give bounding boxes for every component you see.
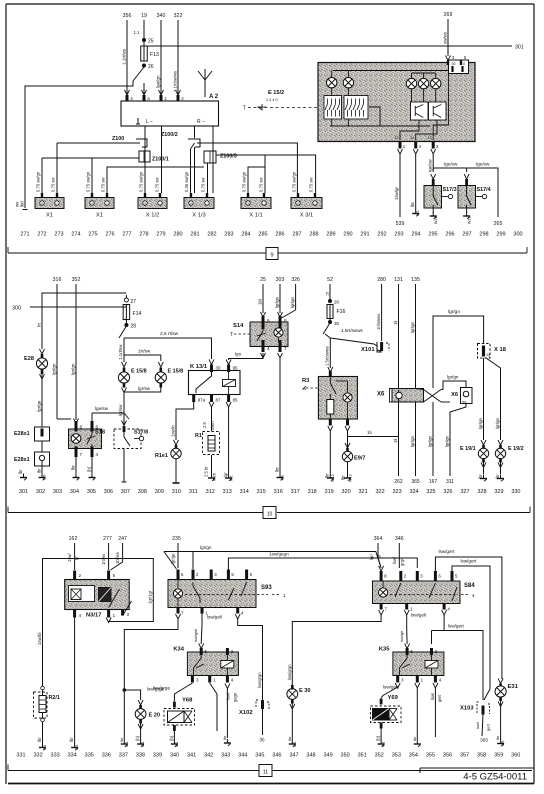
svg-text:R1: R1 — [195, 433, 202, 439]
svg-text:lgr/gn: lgr/gn — [71, 363, 76, 375]
svg-text:R3: R3 — [302, 378, 310, 384]
svg-text:360: 360 — [511, 753, 520, 759]
wire to K35 pin 2 — [431, 631, 433, 645]
svg-text:lsw/grgn: lsw/grgn — [287, 664, 292, 680]
svg-text:316: 316 — [53, 277, 62, 283]
ground W26 — [208, 474, 215, 481]
speaker wire to Z100/2 — [194, 126, 196, 138]
connector arrow S17/3 — [431, 174, 436, 179]
svg-text:gert: gert — [437, 694, 442, 702]
wire lgr from pin 85 — [228, 407, 230, 474]
svg-text:0.35 sw/gn: 0.35 sw/gn — [184, 171, 189, 192]
S18 pin 7 — [75, 447, 78, 458]
svg-text:287: 287 — [292, 232, 301, 238]
wire K35 pin4 down — [434, 688, 436, 737]
svg-text:+: + — [190, 202, 192, 206]
svg-text:301: 301 — [515, 45, 524, 51]
svg-text:298: 298 — [479, 232, 488, 238]
control unit N3/17 box — [65, 580, 130, 610]
svg-text:0.75 sw/gn: 0.75 sw/gn — [86, 171, 91, 192]
svg-text:tge/sw: tge/sw — [476, 162, 490, 167]
svg-text:318: 318 — [308, 489, 317, 495]
headlamp switch S93 — [168, 580, 256, 608]
svg-text:365: 365 — [480, 738, 488, 744]
svg-text:324: 324 — [409, 489, 418, 495]
svg-text:539: 539 — [396, 221, 405, 227]
R3 lamp — [343, 393, 352, 402]
K13/1 pin 30 — [209, 360, 214, 365]
fuse F14 — [123, 305, 129, 320]
svg-text:269: 269 — [444, 12, 453, 18]
svg-text:336: 336 — [102, 753, 111, 759]
wire lge/sw from S18 pin 6 — [92, 412, 124, 414]
svg-text:358: 358 — [477, 753, 486, 759]
svg-text:lgr/sw: lgr/sw — [138, 386, 151, 391]
wire lsw/gegn from S93 pin 5 to S84 pin 3 — [228, 558, 417, 570]
svg-text:310: 310 — [172, 489, 181, 495]
svg-text:1sw/gegn: 1sw/gegn — [269, 552, 289, 557]
svg-text:4: 4 — [96, 452, 99, 457]
cluster lower bus — [330, 125, 430, 127]
svg-text:X6: X6 — [377, 392, 385, 398]
svg-text:lsw/gert: lsw/gert — [383, 685, 400, 690]
svg-text:K35: K35 — [379, 647, 390, 653]
K13/1 pin 87 — [210, 395, 213, 403]
svg-text:R −: R − — [197, 119, 205, 125]
svg-text:14: 14 — [410, 136, 414, 140]
section divider 10 — [8, 512, 263, 514]
S18 pin 8 — [75, 421, 78, 432]
svg-text:X 1/1: X 1/1 — [249, 213, 263, 219]
svg-text:341: 341 — [187, 753, 196, 759]
svg-text:1: 1 — [283, 593, 286, 598]
svg-text:E 30: E 30 — [299, 688, 311, 694]
switch contact below F13 — [133, 67, 144, 81]
svg-text:167: 167 — [429, 479, 438, 485]
K35 pin 2 — [430, 648, 433, 655]
cluster inner top-right connector — [449, 60, 469, 74]
svg-text:1.1: 1.1 — [134, 30, 140, 35]
svg-text:Y69: Y69 — [388, 695, 399, 701]
svg-text:311: 311 — [189, 489, 198, 495]
wire lsw/gert S84 pin6 loop — [435, 557, 502, 679]
svg-text:274: 274 — [71, 232, 80, 238]
wire 301 to right — [144, 45, 512, 47]
svg-text:lsw/geli: lsw/geli — [207, 615, 222, 620]
svg-text:+: + — [41, 202, 43, 206]
wire 539 from cluster pin 1 — [399, 154, 401, 217]
S18 internal lamp — [71, 434, 81, 444]
svg-text:lgr/gn: lgr/gn — [52, 363, 57, 375]
svg-text:2.5: 2.5 — [202, 422, 207, 428]
wire S84 pin4 to K35 pin2 and X103 — [432, 615, 445, 631]
svg-text:280: 280 — [377, 277, 386, 283]
svg-text:lbr: lbr — [71, 465, 76, 470]
svg-text:277: 277 — [122, 232, 131, 238]
lamp E19/1 — [481, 440, 486, 445]
svg-text:296: 296 — [445, 232, 454, 238]
K13/1 contact — [196, 372, 212, 393]
svg-text:275: 275 — [88, 232, 97, 238]
svg-text:E 15/2: E 15/2 — [268, 90, 284, 96]
svg-text:278: 278 — [139, 232, 148, 238]
svg-text:0.75 sw/gn: 0.75 sw/gn — [139, 171, 144, 192]
svg-text:S14: S14 — [233, 323, 244, 329]
svg-text:0.75 sw/gn: 0.75 sw/gn — [292, 171, 297, 192]
wire lbr/ws from node 26 to terminal 271 — [25, 81, 133, 208]
svg-text:F13: F13 — [150, 52, 159, 58]
svg-text:347: 347 — [289, 753, 298, 759]
K13/1 coil — [223, 380, 236, 387]
svg-text:lgr/gn: lgr/gn — [410, 435, 415, 447]
node 25 — [142, 38, 145, 41]
svg-text:300: 300 — [12, 306, 21, 312]
wire lsw/geli S93 pin1 to K34 pin 5 — [200, 612, 203, 644]
svg-text:lgr/gn: lgr/gn — [448, 309, 460, 315]
S18 internal contact — [91, 429, 93, 434]
wire K34 pin4 down — [226, 689, 228, 739]
S93 internals — [173, 589, 182, 598]
svg-text:lgr/: lgr/ — [369, 553, 374, 560]
svg-text:X101: X101 — [361, 347, 375, 353]
relay K34 box — [187, 652, 238, 676]
svg-text:lbr: lbr — [412, 736, 417, 741]
wire S84 pin1 lsw/geli — [406, 615, 408, 630]
wire lbr from cluster pin 4 — [415, 154, 417, 210]
svg-text:303: 303 — [276, 277, 285, 283]
connector arrow E15/8 feed — [122, 362, 127, 367]
switch contact below F15 — [323, 323, 330, 334]
svg-text:28: 28 — [131, 324, 137, 330]
branch to X1/1 right pin — [264, 155, 266, 193]
svg-text:W1: W1 — [125, 742, 129, 747]
svg-text:340: 340 — [157, 13, 166, 19]
svg-text:E31: E31 — [508, 684, 519, 690]
svg-text:355: 355 — [426, 753, 435, 759]
connector arrow S17/4 — [466, 168, 468, 172]
svg-text:328: 328 — [477, 489, 486, 495]
svg-text:342: 342 — [204, 753, 213, 759]
svg-text:306: 306 — [104, 489, 113, 495]
svg-text:S18: S18 — [95, 430, 105, 436]
tge/sw distribution wire — [433, 168, 498, 217]
K13/1 pin 87a — [192, 395, 195, 403]
svg-text:357: 357 — [460, 753, 469, 759]
svg-text:135: 135 — [411, 277, 420, 283]
svg-text:lsw/geli: lsw/geli — [411, 613, 426, 618]
svg-text:329: 329 — [494, 489, 503, 495]
svg-text:W12: W12 — [331, 474, 335, 482]
border frame — [6, 3, 534, 5]
svg-text:lgr/gn: lgr/gn — [428, 435, 433, 447]
svg-text:282: 282 — [207, 232, 216, 238]
svg-text:lsw/ge: lsw/ge — [399, 630, 404, 642]
svg-text:346: 346 — [395, 536, 404, 542]
svg-text:0.75 sw: 0.75 sw — [259, 177, 264, 192]
svg-text:lge/sw: lge/sw — [95, 406, 109, 411]
N3/17 pin 5 — [107, 571, 110, 580]
svg-text:lbr: lbr — [222, 735, 227, 740]
svg-text:330: 330 — [511, 489, 520, 495]
svg-text:13: 13 — [395, 136, 399, 140]
svg-text:lbr: lbr — [69, 737, 74, 742]
svg-text:299: 299 — [496, 232, 505, 238]
svg-text:276: 276 — [105, 232, 114, 238]
svg-text:N3/17: N3/17 — [86, 613, 101, 619]
S14 pin 7 — [279, 340, 282, 352]
svg-text:131: 131 — [394, 277, 403, 283]
svg-text:364: 364 — [374, 536, 383, 542]
svg-text:293: 293 — [394, 232, 403, 238]
svg-text:S17/4: S17/4 — [477, 187, 491, 193]
wire K35 pin1 to ground 354 — [416, 688, 418, 740]
svg-text:E28: E28 — [24, 356, 34, 362]
svg-text:X1: X1 — [96, 213, 103, 219]
svg-text:52: 52 — [327, 277, 333, 283]
connector X1/3 — [184, 198, 214, 209]
svg-text:340: 340 — [170, 753, 179, 759]
svg-text:W2: W2 — [293, 742, 297, 747]
cluster lamp 5 — [435, 73, 437, 78]
svg-text:lgr: lgr — [223, 472, 228, 477]
svg-text:326: 326 — [443, 489, 452, 495]
S84 top pins — [380, 571, 383, 581]
svg-text:356: 356 — [123, 13, 132, 19]
svg-text:gegn: gegn — [233, 692, 238, 702]
svg-text:W1: W1 — [416, 210, 420, 216]
node 27 terminal ring — [124, 298, 128, 302]
cluster lamp 3 — [411, 73, 413, 78]
connector X3/1 — [291, 198, 322, 209]
wire continuation to ground 337 — [123, 690, 125, 740]
heater control R3 box — [318, 377, 357, 420]
svg-text:326: 326 — [291, 277, 300, 283]
svg-text:lgr/gn: lgr/gn — [200, 545, 212, 550]
svg-text:lgr/gn: lgr/gn — [447, 375, 459, 380]
svg-text:302: 302 — [36, 489, 45, 495]
svg-text:lsw/grge: lsw/grge — [153, 686, 171, 691]
lgr/gn link to X6 right — [443, 381, 466, 390]
svg-text:lgr/ge: lgr/ge — [37, 400, 42, 412]
K34 bottom pins — [191, 676, 194, 683]
svg-text:1 4 4 0: 1 4 4 0 — [266, 98, 278, 102]
svg-text:W12: W12 — [349, 474, 353, 482]
svg-text:E28x1: E28x1 — [14, 457, 30, 463]
svg-text:X 18: X 18 — [494, 347, 507, 353]
svg-text:+: + — [144, 202, 146, 206]
svg-text:Z100: Z100 — [112, 136, 124, 142]
svg-text:lbr: lbr — [18, 469, 23, 474]
node 26 — [142, 64, 145, 67]
svg-text:309: 309 — [155, 489, 164, 495]
svg-text:305: 305 — [87, 489, 96, 495]
svg-text:307: 307 — [121, 489, 130, 495]
svg-text:25: 25 — [260, 277, 266, 283]
wires X18 to lamps — [483, 358, 485, 440]
lamp E31 — [498, 679, 503, 684]
svg-text:lgr/gn: lgr/gn — [275, 296, 280, 308]
svg-text:30: 30 — [452, 62, 456, 66]
wire K34 pin1 stub down — [210, 683, 217, 731]
svg-text:4-5 GZ54-0011: 4-5 GZ54-0011 — [463, 772, 527, 783]
wire down to S17/8 — [123, 420, 125, 426]
svg-text:+: + — [297, 202, 299, 206]
K35 internals — [399, 655, 407, 675]
svg-text:Z100/2: Z100/2 — [161, 132, 178, 138]
svg-text:349: 349 — [323, 753, 332, 759]
wire to X101 — [325, 334, 381, 351]
wire lbr ground 319 — [329, 431, 331, 474]
svg-text:314: 314 — [240, 489, 249, 495]
cluster lamp 1 wire down — [331, 88, 333, 96]
svg-text:286: 286 — [275, 232, 284, 238]
fuse F13 — [141, 46, 148, 61]
cluster wiring to bottom pins — [400, 120, 419, 140]
wire lgr/gn from S93 to S84 pin 8 — [164, 552, 381, 569]
wire to X1 second left pin — [91, 158, 93, 193]
lamp E19/2 — [498, 440, 503, 445]
svg-text:lsw/geli: lsw/geli — [193, 629, 198, 642]
connector X18 — [478, 344, 491, 359]
svg-text:162: 162 — [69, 536, 78, 542]
svg-text:E 15/8: E 15/8 — [131, 369, 147, 375]
svg-text:lbr: lbr — [37, 737, 42, 742]
svg-text:321: 321 — [359, 489, 368, 495]
resistor R2/1 — [41, 686, 45, 690]
svg-text:X102: X102 — [239, 710, 253, 716]
svg-text:332: 332 — [33, 753, 42, 759]
wire lsw/ge to K35 pin5 from S84 pin1 — [406, 630, 408, 645]
svg-text:sw/ws: sw/ws — [443, 31, 448, 44]
branch wire 1rt/sw to right E15/8 — [124, 355, 161, 361]
S93 top pins — [177, 570, 180, 580]
svg-text:2,5 rt/sw: 2,5 rt/sw — [160, 331, 179, 337]
wire K35 pin3 to Y69 — [381, 687, 398, 698]
svg-text:lsw/gert: lsw/gert — [461, 559, 478, 564]
N3/17 pin 1 — [107, 610, 110, 618]
svg-text:0.75 sw: 0.75 sw — [51, 177, 56, 192]
svg-text:F16: F16 — [337, 309, 346, 315]
svg-text:tge/sw: tge/sw — [444, 162, 458, 167]
wire from S17/8 to 307 — [123, 449, 125, 483]
resistor R1 — [203, 432, 220, 455]
svg-text:301: 301 — [19, 489, 28, 495]
svg-text:W20: W20 — [434, 216, 438, 224]
svg-text:285: 285 — [258, 232, 267, 238]
cluster lamp 1 — [331, 71, 333, 78]
svg-text:bl: bl — [376, 555, 381, 558]
K35 pin 5 — [405, 644, 410, 649]
svg-text:327: 327 — [460, 489, 469, 495]
wire 1.1rt/sw down to E15/8 — [123, 338, 125, 362]
svg-text:Y68: Y68 — [182, 698, 193, 704]
svg-text:lsw/: lsw/ — [226, 692, 231, 700]
svg-text:W5: W5 — [501, 741, 505, 746]
svg-text:304: 304 — [70, 489, 79, 495]
svg-text:K 13/1: K 13/1 — [190, 364, 208, 370]
svg-text:333: 333 — [51, 753, 60, 759]
svg-text:0.75 sw/gn: 0.75 sw/gn — [242, 171, 247, 192]
node 30 — [329, 319, 331, 322]
wire S93 pin 7 to E20 — [124, 619, 178, 700]
connector X1/1 — [241, 198, 271, 209]
svg-text:lbr: lbr — [37, 468, 42, 473]
svg-text:S93: S93 — [261, 585, 272, 591]
svg-text:281: 281 — [190, 232, 199, 238]
svg-text:8: 8 — [80, 425, 83, 430]
wire from N3/17 pin 4 to ground 334 — [74, 618, 76, 745]
svg-text:lsw/gert: lsw/gert — [439, 549, 456, 554]
svg-text:297: 297 — [462, 232, 471, 238]
svg-text:303: 303 — [53, 489, 62, 495]
wire lbr from S14 pin 7 — [279, 358, 281, 474]
svg-text:R1e1: R1e1 — [155, 453, 168, 459]
svg-text:Z100/3: Z100/3 — [220, 154, 237, 160]
svg-text:1gr/1gr: 1gr/1gr — [148, 590, 153, 604]
svg-text:271: 271 — [20, 232, 29, 238]
S14 pin 4 — [262, 340, 265, 352]
svg-text:283: 283 — [224, 232, 233, 238]
svg-text:85: 85 — [233, 398, 238, 403]
svg-text:1sw/: 1sw/ — [67, 553, 72, 562]
svg-text:288: 288 — [309, 232, 318, 238]
N3/17 pin 2 — [73, 571, 76, 580]
svg-text:351: 351 — [358, 753, 367, 759]
svg-text:27: 27 — [131, 299, 137, 305]
svg-text:272: 272 — [37, 232, 46, 238]
svg-text:26: 26 — [148, 64, 154, 70]
svg-text:317: 317 — [291, 489, 300, 495]
svg-text:sw/rt: sw/rt — [210, 420, 215, 430]
wire to ground 305 — [91, 457, 93, 474]
relay K35 box — [393, 652, 444, 676]
svg-text:319: 319 — [325, 489, 334, 495]
svg-text:(5): (5) — [259, 737, 265, 742]
N3/17 pin 3 contact stub — [123, 601, 132, 616]
svg-text:E9/7: E9/7 — [354, 456, 366, 462]
svg-text:331: 331 — [16, 753, 25, 759]
svg-text:337: 337 — [119, 753, 128, 759]
S93 bottom pins — [177, 608, 180, 614]
svg-text:316: 316 — [274, 489, 283, 495]
radio unit R connector box — [121, 101, 219, 126]
svg-text:19: 19 — [141, 13, 147, 19]
speaker wire L- to X1/2 — [161, 126, 163, 193]
svg-text:1rt/ws: 1rt/ws — [101, 554, 106, 565]
lamp E15/8 left — [123, 368, 126, 373]
cluster lamp 2 — [347, 71, 349, 78]
svg-text:343: 343 — [221, 753, 230, 759]
wire K34 pin3 to Y68 — [174, 683, 192, 701]
wire crossing X — [415, 384, 417, 389]
svg-text:320: 320 — [342, 489, 351, 495]
switch S18 — [69, 429, 102, 449]
ground W20 — [430, 212, 437, 219]
svg-text:lsw/: lsw/ — [475, 721, 480, 729]
svg-text:lgn: lgn — [235, 352, 242, 357]
svg-text:308: 308 — [138, 489, 147, 495]
S18 pin 4 — [91, 447, 94, 458]
N3/17 pin 3 — [121, 610, 124, 616]
svg-text:lgr/gn: lgr/gn — [410, 321, 415, 333]
svg-text:322: 322 — [375, 489, 384, 495]
svg-text:346: 346 — [272, 753, 281, 759]
svg-text:X103: X103 — [460, 706, 474, 712]
svg-text:lgr/gn: lgr/gn — [290, 296, 295, 308]
R3 bottom pins — [329, 419, 332, 426]
section divider 9 — [8, 252, 266, 254]
svg-text:353: 353 — [392, 753, 401, 759]
